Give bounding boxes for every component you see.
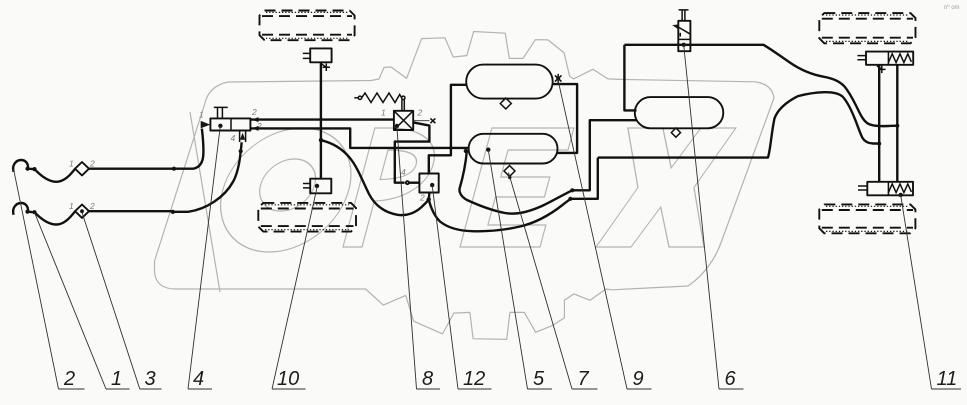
watermark gear outline [155,32,775,340]
svg-text:2: 2 [419,193,425,203]
svg-text:11: 11 [937,368,958,390]
watermark OPEX letters [206,128,736,252]
tire front-right [819,13,915,43]
svg-text:6: 6 [725,368,737,390]
arrow into port 1 [201,121,211,128]
spring brake chamber rear bottom [858,182,913,197]
svg-text:1: 1 [69,201,74,211]
svg-text:1: 1 [111,368,122,390]
marker x on front line [321,64,330,72]
wire U8 port2 to regulator U12 port [395,122,430,182]
wire reservoir2 left hose to frame tee [464,149,468,153]
spring of valve U8 [354,97,358,99]
wire port2b to reservoir 2 [250,128,468,148]
hand brake valve U6 [672,10,690,51]
coupling head 1 (top) [13,160,28,172]
tire rear-left [258,203,356,232]
brake chamber front-left bottom [303,179,331,194]
svg-text:5: 5 [533,368,545,390]
tire front-left [260,11,355,41]
tire rear-right [819,204,915,233]
wire reservoir1 right to reservoir2 right [553,84,577,153]
valve U4 port 4 (bottom) [240,131,246,143]
reservoir 1 (upper) [466,65,553,99]
svg-text:2: 2 [63,368,75,390]
reservoir 3 (rear) [635,97,724,128]
drain valve under reservoir 1 [500,98,511,109]
svg-text:1: 1 [381,108,386,118]
leader to 6 [684,45,719,389]
leader to 8 [397,126,417,389]
brake valve U4 (two-section foot valve) [210,107,250,130]
single protection valve U8 [394,111,413,130]
coupling head 2 (bottom) [13,203,28,215]
rear service line to frame [570,158,597,199]
rear service line along frame and hose to rear chambers [598,92,879,157]
leader to 7 [509,173,573,390]
brake chamber front-left top [303,48,332,62]
leader to 11 [901,195,932,389]
leader to 3 [82,213,140,390]
leader to 9 [558,79,627,389]
parking valve line along top and hose to rear chambers [624,45,897,126]
svg-text:1: 1 [69,159,74,169]
wire valve6 down to reservoir 3 [624,45,636,111]
svg-text:2: 2 [417,108,423,118]
supply marker on reservoir 1 [555,74,562,83]
leader to 12 [432,185,458,389]
svg-text:7: 7 [578,368,590,390]
svg-text:nº om: nº om [944,4,960,11]
wire coupling2 to valve port 4 [89,210,173,212]
svg-text:10: 10 [277,368,299,390]
svg-text:2: 2 [89,201,95,211]
reservoir 2 (lower) [469,134,558,164]
svg-text:9: 9 [633,368,644,390]
leader to 1 [35,213,107,390]
svg-text:12: 12 [463,368,485,390]
wire coupling2 dip [28,211,76,224]
svg-text:3: 3 [145,368,156,390]
svg-text:2: 2 [89,159,95,169]
wire reservoir1 left to regulator U12 top port [429,85,466,174]
svg-text:4: 4 [231,133,236,143]
drain valve under reservoir 2 [504,166,515,177]
wire coupling1 dip [28,169,76,182]
leader to 5 [488,150,527,389]
svg-text:2: 2 [251,107,257,117]
hose regulator to rear service line [429,199,571,231]
wire coupling1 to valve port 1 [89,167,174,169]
junction dots coupling 1 [25,167,29,171]
svg-text:8: 8 [422,368,433,390]
rear chamber verticals [878,65,880,182]
front chamber line (vertical through both left chambers) [320,62,322,178]
svg-text:1: 1 [199,110,204,120]
regulator U12 bottom stub [428,193,431,200]
watermark gear left flank line [190,112,220,292]
frame junction + S-curve from front chambers line [319,138,323,142]
brake force regulator U12 [419,174,438,193]
leader to 2 [14,169,59,389]
filter diamond 2 [75,205,89,218]
svg-text:4: 4 [193,368,204,390]
U8 port2 blind line with x [413,120,429,122]
svg-text:4: 4 [401,167,406,177]
drain valve under reservoir 3 [671,128,680,137]
marker x on rear line [877,66,886,74]
leader to 4 [188,126,220,389]
junction dots coupling 2 [25,210,29,214]
wire port2a to protection valve U8 [250,118,394,120]
leader to 10 [272,186,317,389]
spring brake chamber rear top [857,52,913,65]
filter diamond 1 [75,162,89,175]
